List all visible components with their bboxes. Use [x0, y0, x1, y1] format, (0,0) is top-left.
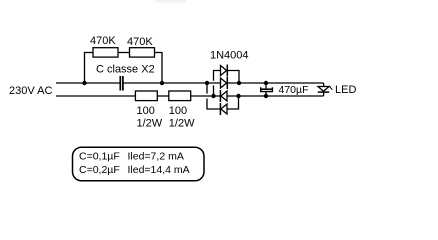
note box [73, 147, 205, 181]
wire diode D4 anode to DC- [227, 96, 239, 109]
node junction C2 bottom on DC- [264, 94, 268, 98]
node junction C2 top on DC+ [264, 81, 268, 85]
svg-text:C=0,1µF: C=0,1µF [79, 150, 120, 162]
svg-text:1N4004: 1N4004 [210, 49, 249, 61]
node junction 470K branch left on AC L [82, 81, 86, 85]
svg-text:C classe X2: C classe X2 [96, 64, 155, 76]
svg-text:470K: 470K [127, 36, 153, 48]
capacitor C2 470uF bottom plate [261, 87, 273, 91]
node junction D1 rail on AC N [211, 94, 215, 98]
svg-text:100: 100 [137, 105, 155, 117]
diode D1 1N4004 [221, 66, 227, 76]
svg-text:C=0,2µF: C=0,2µF [79, 164, 120, 176]
resistor R3 100 1/2W [135, 91, 157, 101]
node junction 470K branch right on AC L [160, 81, 164, 85]
resistor R1 470K [93, 48, 118, 57]
svg-text:230V AC: 230V AC [9, 85, 52, 97]
diode D2 1N4004 [221, 78, 227, 88]
capacitor C2 470uF top plate [261, 88, 272, 90]
svg-text:1/2W: 1/2W [169, 118, 195, 130]
wire AC line L (top) left segment [56, 82, 120, 84]
node junction D1 on DC+ [237, 81, 241, 85]
node junction D4 rail on AC L [205, 81, 209, 85]
diode D4 1N4004 [221, 104, 227, 114]
wire DC- line [227, 95, 324, 97]
capacitor C2 470uF bottom lead [265, 92, 267, 96]
svg-text:470µF: 470µF [279, 84, 309, 96]
wire AC line N (bottom) right segment [191, 95, 221, 97]
wire AC line L (top) right segment [123, 82, 220, 84]
wire LED anode lead [323, 83, 325, 87]
svg-text:470K: 470K [90, 35, 116, 47]
wire 470K branch right vertical [155, 53, 163, 84]
wire between 470K resistors [118, 52, 130, 54]
resistor R2 470K [130, 48, 155, 57]
resistor R4 100 1/2W [169, 91, 191, 101]
LED D5 emission arrow [329, 86, 332, 90]
wire diode D4 cathode rail (breaks crossing AC line N) [206, 83, 208, 94]
node junction D4 on DC- [236, 94, 240, 98]
wire between 100 ohm resistors [157, 95, 169, 97]
wire 470K branch left vertical [85, 53, 94, 84]
svg-text:Iled=7,2 mA: Iled=7,2 mA [128, 150, 184, 162]
wire AC line N (bottom) left segment [56, 95, 135, 97]
LED D5 cathode bar [318, 91, 330, 93]
capacitor C2 470uF top lead [265, 83, 267, 89]
svg-text:LED: LED [335, 84, 356, 96]
svg-text:Iled=14,4 mA: Iled=14,4 mA [128, 164, 190, 176]
wire DC+ line [227, 82, 323, 84]
wire diode D1 cathode to DC+ [227, 71, 239, 84]
wire diode D1 anode rail (breaks crossing AC line L) [214, 71, 221, 81]
capacitor C1 classe X2 plates [119, 76, 121, 91]
LED D5 triangle [318, 87, 329, 92]
diode D3 1N4004 [221, 91, 227, 101]
svg-text:1/2W: 1/2W [137, 118, 163, 130]
wire LED cathode lead [323, 92, 325, 96]
svg-text:100: 100 [169, 105, 187, 117]
